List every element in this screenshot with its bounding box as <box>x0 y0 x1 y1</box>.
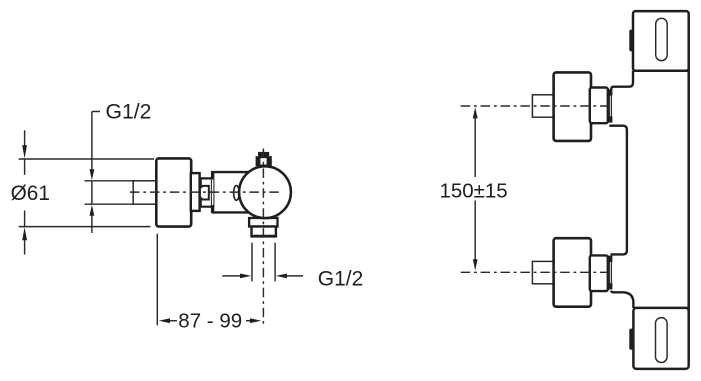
svg-text:G1/2: G1/2 <box>106 100 152 123</box>
body: neck from top handle box to top inlet boss <box>611 71 633 90</box>
svg-text:Ø61: Ø61 <box>11 182 50 205</box>
bottom handle slot <box>656 318 668 363</box>
spout dim line right tail <box>286 275 303 277</box>
bottom inlet centerline <box>461 271 610 273</box>
top box seam flares <box>634 69 642 72</box>
Ø61 upper arrowhead (down) <box>22 145 27 158</box>
87-99 left arrowhead (points left) <box>159 318 170 323</box>
87-99 extension line (wall plane) <box>156 234 158 326</box>
87-99 right tail <box>246 320 251 322</box>
thermostat knob circle (side view) <box>239 166 291 218</box>
cartridge housing double lines <box>210 179 212 206</box>
bottom inlet collar <box>590 255 608 291</box>
top box side notch <box>629 30 633 52</box>
extension line pipe bottom <box>85 203 134 205</box>
150±15 dim upper arrowhead (up) <box>473 107 478 118</box>
arrowhead up onto pipe bottom line <box>90 205 95 216</box>
Ø61 dim line upper tail <box>24 130 26 146</box>
87-99 left tail <box>170 320 178 322</box>
body: neck from bottom inlet boss to bottom handle box <box>611 291 633 308</box>
svg-text:150±15: 150±15 <box>439 179 507 202</box>
body: mid left edge between inlets <box>609 126 627 255</box>
centerline horizontal (left view) <box>130 191 281 193</box>
collar behind body <box>191 173 200 211</box>
150±15 dim lower arrowhead (down) <box>473 259 478 270</box>
bottom inlet pipe stub (front view) <box>532 261 553 283</box>
centerline vertical (left view) <box>262 149 264 326</box>
cartridge housing bottom line <box>212 211 248 213</box>
spout nut bottom edge <box>251 235 277 238</box>
Ø61 upper overshoot <box>24 159 26 175</box>
top inlet centerline <box>461 105 611 107</box>
spout G1/2 dim extension right <box>274 243 276 282</box>
Ø61 lower overshoot <box>24 211 26 227</box>
check valve plug <box>200 186 209 200</box>
spout collar below <box>249 218 277 227</box>
bottom box seam flares <box>634 307 642 310</box>
Ø61 lower arrowhead (up) <box>22 227 27 240</box>
dim line crossing pipe <box>91 181 93 204</box>
87-99 right arrowhead (points right) <box>250 318 261 323</box>
150±15 dim line upper <box>474 118 476 178</box>
top inlet collar <box>590 88 608 124</box>
spout dim line left tail <box>222 275 240 277</box>
body right edge <box>687 60 690 320</box>
bottom inlet ring corner blocks <box>608 256 612 262</box>
svg-text:87 - 99: 87 - 99 <box>178 310 242 333</box>
inlet pipe stub (side view) <box>133 181 156 204</box>
leader tick for G1/2 label <box>92 111 100 113</box>
150±15 dim line lower <box>474 201 476 261</box>
side boss ellipse <box>234 186 240 201</box>
spout dim left arrowhead (points right) <box>240 274 251 279</box>
dim tail below <box>91 215 93 233</box>
top handle slot <box>656 18 668 60</box>
spout dim right arrowhead (points left) <box>276 274 287 279</box>
top inlet escutcheon <box>554 72 591 140</box>
top inlet ring corner blocks <box>608 89 612 95</box>
cartridge housing left edge blocks <box>211 171 214 179</box>
dimension Ø61 extension top <box>19 158 154 160</box>
spout nut <box>252 227 276 237</box>
leader/dimension vertical line for G1/2 <box>91 112 93 171</box>
top handle box <box>633 11 689 71</box>
svg-text:G1/2: G1/2 <box>318 268 364 291</box>
cartridge housing top line <box>212 171 248 173</box>
bottom inlet union ring lines <box>608 262 610 284</box>
extension line pipe top <box>85 180 134 182</box>
bottom box side notch <box>629 329 633 350</box>
handle cap on top <box>258 152 269 158</box>
top inlet union ring lines <box>608 95 610 117</box>
dimension Ø61 extension bottom <box>19 226 151 228</box>
bottom handle box <box>633 308 688 369</box>
Ø61 lower tail <box>24 240 26 255</box>
top inlet pipe stub (front view) <box>532 95 553 117</box>
spout G1/2 dim extension left <box>251 243 253 282</box>
bottom inlet escutcheon <box>554 238 591 307</box>
arrowhead down onto pipe top line <box>90 169 95 180</box>
neck connector <box>201 178 213 206</box>
wall escutcheon Ø61 (side view) <box>156 158 191 226</box>
